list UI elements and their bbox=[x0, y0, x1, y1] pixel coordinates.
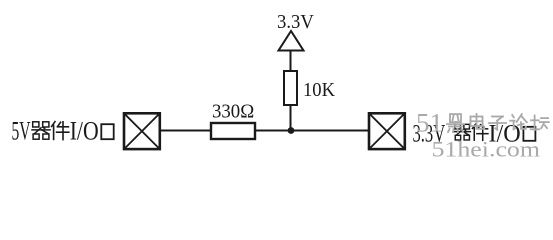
hand-drawn CJK: jian (piece) bbox=[52, 122, 69, 140]
svg-text:51: 51 bbox=[416, 108, 443, 137]
hand-drawn CJK: kou bbox=[523, 127, 535, 141]
label 5V device I/O port bbox=[12, 117, 114, 146]
junction bbox=[288, 127, 295, 134]
wire bbox=[161, 130, 211, 132]
hand-drawn CJK gray: lun (discuss) bbox=[510, 114, 527, 129]
hand-drawn CJK: kou (mouth/port) bbox=[101, 124, 113, 139]
hand-drawn CJK gray: dian (electric) bbox=[471, 114, 485, 129]
hand-drawn CJK: jian bbox=[472, 124, 487, 140]
power symbol VCC bbox=[279, 31, 304, 51]
port P1 5V device I/O bbox=[124, 113, 160, 149]
svg-text:10K: 10K bbox=[303, 80, 335, 101]
label 3.3V device I/O port bbox=[413, 120, 536, 147]
port P2 3.3V device I/O bbox=[369, 113, 405, 149]
svg-text:I/O: I/O bbox=[70, 117, 99, 146]
resistor R2 330 bbox=[211, 123, 255, 139]
svg-text:3.3V: 3.3V bbox=[277, 11, 314, 33]
hand-drawn CJK gray: zi (sub) bbox=[489, 117, 506, 130]
svg-text:51hei.com: 51hei.com bbox=[432, 137, 541, 162]
svg-text:5V: 5V bbox=[12, 117, 31, 146]
watermark 51hei line1 bbox=[416, 108, 549, 137]
resistor R1 10K bbox=[284, 71, 297, 105]
wire bbox=[255, 130, 368, 132]
wire bbox=[290, 105, 292, 131]
svg-text:330Ω: 330Ω bbox=[212, 100, 254, 122]
hand-drawn CJK gray: hei (black) bbox=[447, 114, 464, 132]
hand-drawn CJK gray: tan (forum) bbox=[531, 116, 549, 131]
hand-drawn CJK: qi (vessel) bbox=[32, 122, 50, 139]
wire bbox=[290, 51, 292, 73]
hand-drawn CJK: qi bbox=[454, 124, 470, 140]
